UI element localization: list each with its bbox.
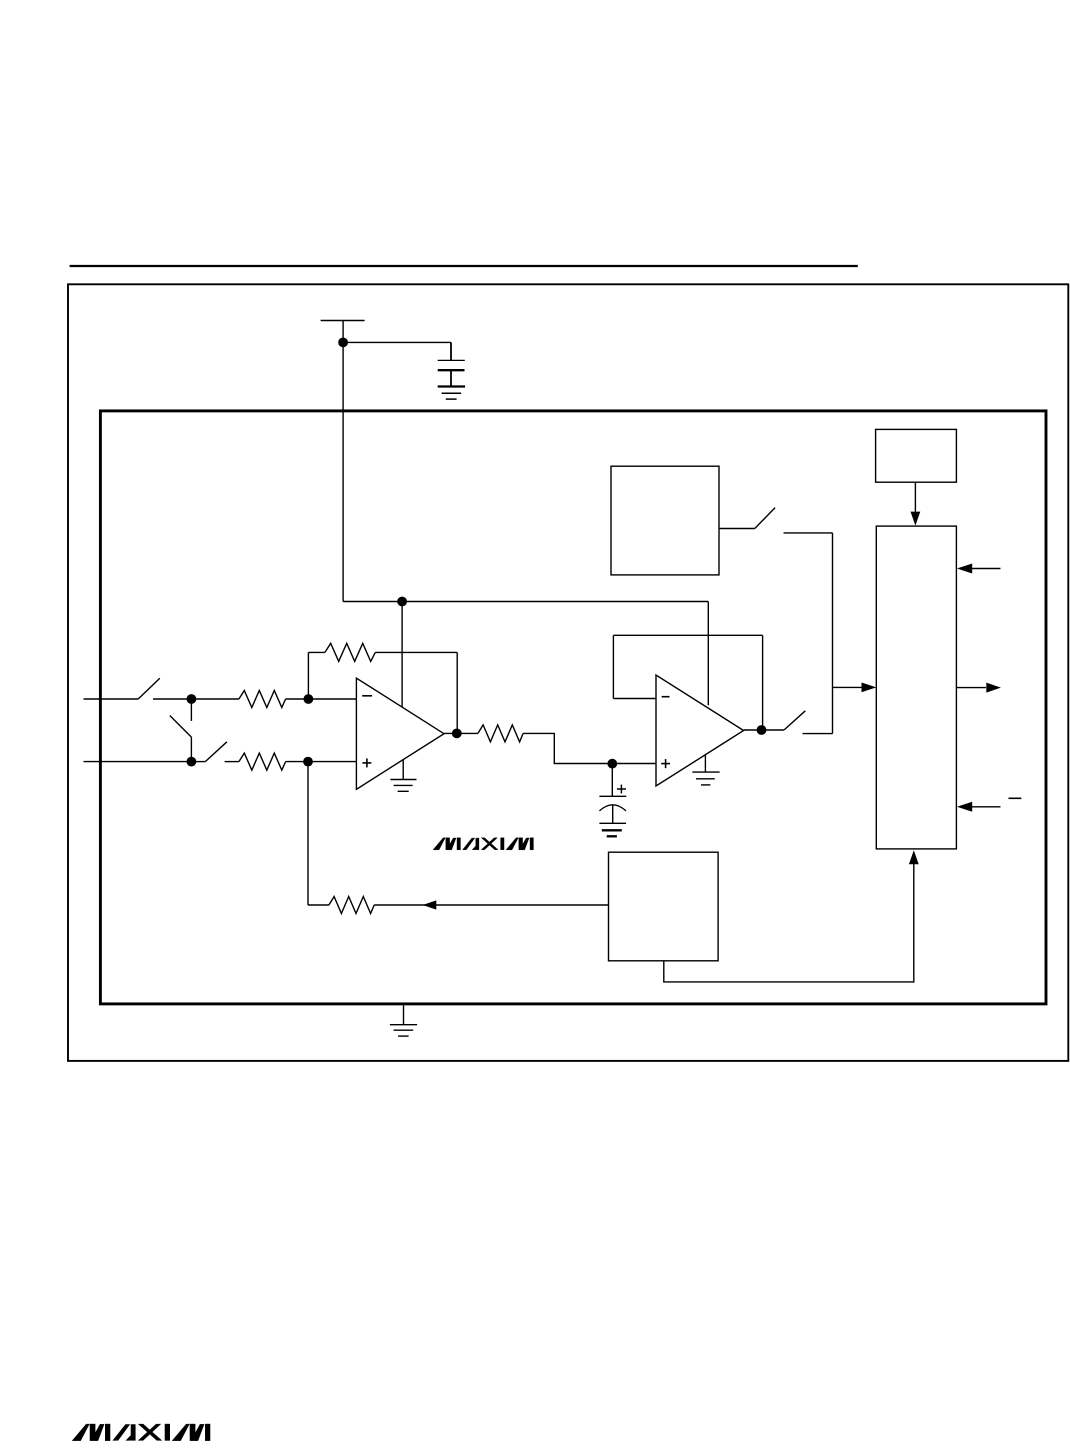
ground (under C2)	[599, 823, 626, 836]
node B dot (inverting input)	[304, 694, 314, 704]
wire down to output node	[456, 652, 458, 733]
wire: supply to op-amp U2	[707, 602, 709, 706]
ground (under U1)	[390, 760, 416, 791]
wire	[375, 651, 457, 653]
wire	[286, 698, 309, 700]
arrowhead	[909, 850, 919, 864]
minus label	[1009, 797, 1022, 799]
U2 feedback loop wire	[613, 635, 762, 730]
capacitor C2 (polarized)	[599, 764, 626, 824]
U2 plus label	[661, 759, 670, 768]
U2 output wire	[744, 729, 784, 731]
node: rail junction dot	[397, 597, 407, 607]
feedback wire from node D down	[307, 762, 309, 905]
wire to bypass cap	[343, 341, 451, 343]
node D dot (non-inverting input)	[303, 757, 313, 767]
block B1 (upper middle)	[611, 466, 719, 575]
arrowhead	[986, 683, 1001, 693]
ground (bottom of inner box)	[390, 1005, 417, 1036]
wire: supply to op-amp U1	[401, 602, 403, 708]
op-amp U1	[356, 678, 444, 789]
block B4 (bottom middle)	[609, 852, 719, 961]
U2 minus label	[662, 696, 670, 698]
supply terminal T	[321, 321, 365, 602]
outer border box	[68, 284, 1068, 1061]
node G dot (U2 output)	[757, 725, 767, 735]
resistor R2	[239, 753, 286, 770]
switch S1	[138, 678, 160, 699]
wire	[308, 761, 356, 763]
block B3 (tall right)	[876, 526, 956, 849]
MAXIM logo (schematic)	[433, 838, 533, 850]
feedback: wire up from node B	[307, 652, 309, 699]
arrowhead	[862, 683, 877, 693]
switch S2 (crossover)	[170, 699, 192, 762]
input wire 2	[84, 761, 192, 763]
wire jog to U2 input	[523, 733, 656, 763]
ground (under U2)	[692, 754, 719, 785]
switch S3	[205, 742, 227, 762]
wire	[191, 761, 205, 763]
U1 minus label	[362, 695, 372, 697]
resistor R1	[239, 691, 286, 708]
wire	[803, 733, 833, 735]
wire	[191, 698, 239, 700]
node: supply junction dot	[338, 338, 348, 348]
inner IC boundary box (bold)	[100, 411, 1046, 1004]
arrowhead	[957, 802, 972, 812]
arrowhead	[957, 564, 972, 574]
node F dot	[607, 759, 617, 769]
wire	[308, 651, 325, 653]
wire up to comparator input	[832, 533, 834, 734]
supply rail wire	[343, 601, 708, 603]
node C dot	[187, 757, 197, 767]
op-amp U2	[656, 675, 744, 786]
switch S4	[719, 508, 833, 533]
block B2 (small top right)	[876, 429, 957, 482]
wire with arrow out (mid right)	[956, 687, 986, 689]
wire with arrow from B2 to comparator	[914, 482, 916, 512]
wire	[286, 761, 308, 763]
arrowhead	[423, 900, 437, 909]
capacitor C1 (bypass)	[438, 342, 465, 386]
switch S5	[784, 711, 805, 730]
node E dot (U1 output)	[452, 729, 462, 739]
input wire 1	[84, 698, 139, 700]
resistor R5	[329, 897, 374, 914]
wire	[225, 761, 239, 763]
wire from B4 with arrow	[374, 904, 608, 906]
wire with arrow into block	[833, 686, 862, 688]
MAXIM logo (page footer)	[72, 1424, 210, 1441]
wire	[153, 698, 191, 700]
resistor R3 (feedback)	[325, 643, 375, 661]
wire B4 to comparator bottom	[664, 864, 914, 982]
wire	[308, 904, 329, 906]
arrowhead	[911, 512, 921, 526]
wire with arrow in (upper right)	[972, 568, 1001, 570]
wire with arrow in (lower right)	[972, 806, 1001, 808]
ground (under C1)	[438, 387, 465, 400]
node A dot	[187, 694, 197, 704]
resistor R4	[478, 725, 523, 742]
wire	[308, 698, 356, 700]
U1 output wire	[444, 732, 478, 734]
U1 plus label	[362, 758, 371, 767]
section rule	[70, 265, 858, 267]
